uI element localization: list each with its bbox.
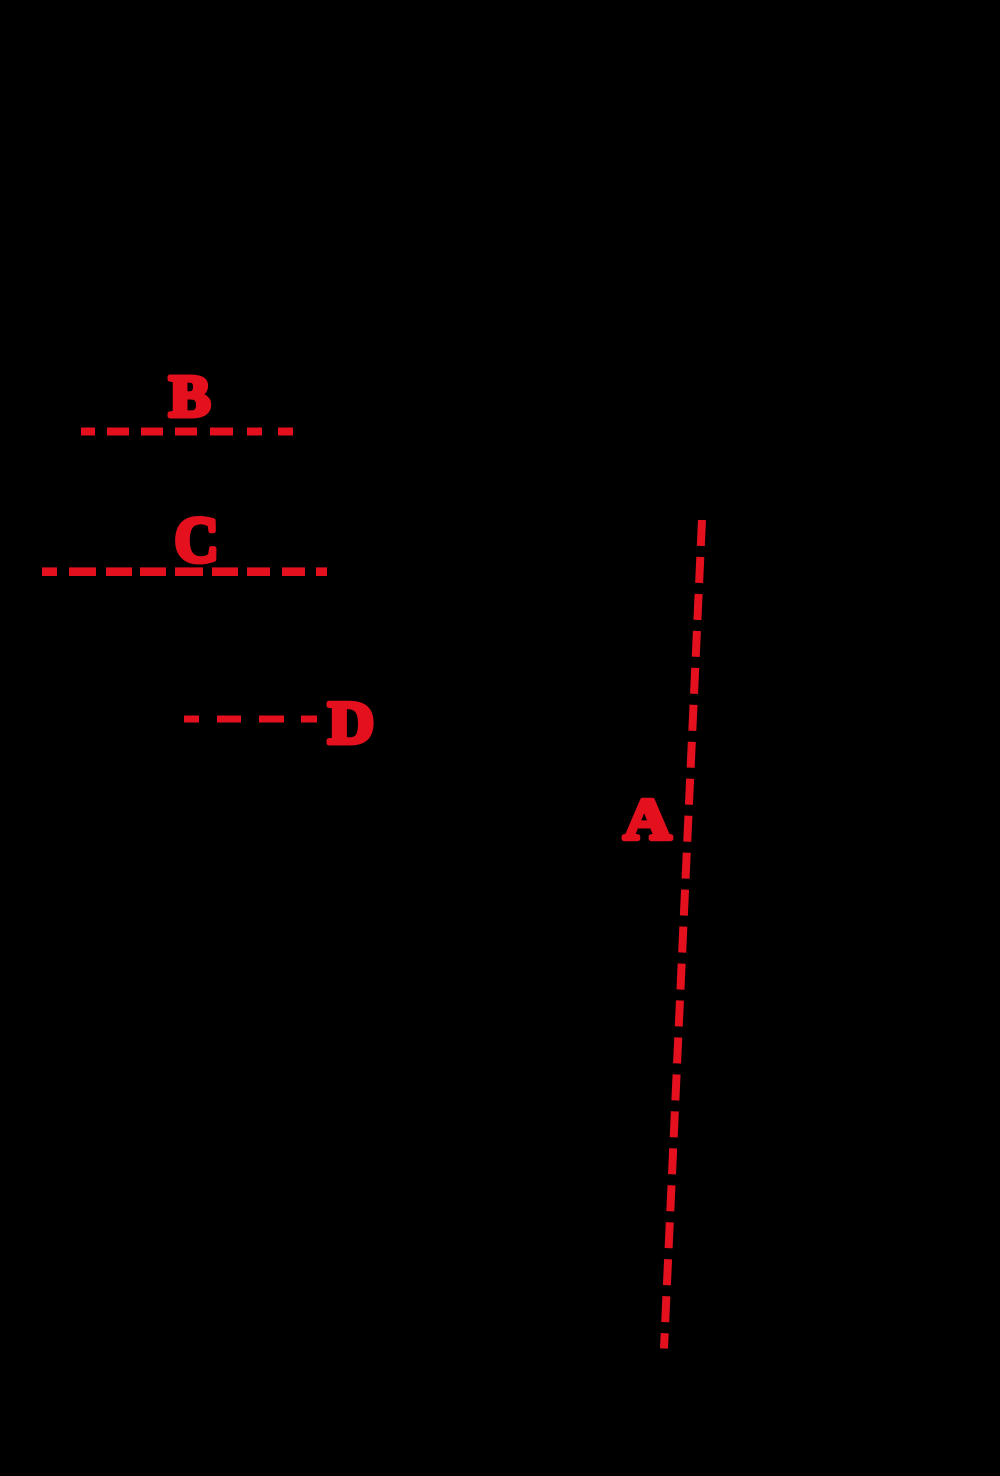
leader line A — [664, 520, 702, 1349]
leader line C — [42, 567, 329, 576]
svg-text:A: A — [624, 788, 672, 852]
svg-text:D: D — [328, 690, 374, 756]
svg-text:C: C — [175, 504, 219, 576]
leader line B — [81, 428, 293, 436]
svg-text:B: B — [169, 364, 210, 429]
leader line D — [184, 716, 317, 723]
